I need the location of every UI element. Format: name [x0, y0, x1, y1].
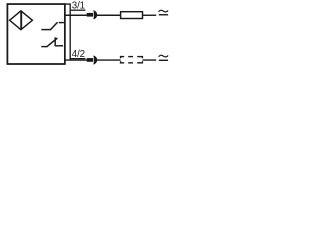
inductive proximity sensor symbol (diamond): [10, 11, 33, 30]
cable boundary line: [65, 4, 70, 60]
wire bottom (pin 4/2 to connector): [65, 59, 88, 61]
AC/DC supply symbol bottom: [159, 55, 168, 60]
connector bottom: [87, 56, 98, 65]
wire bottom connector to load: [97, 59, 121, 61]
label 3/1: [70, 0, 85, 11]
NO contact: [41, 22, 64, 30]
connector top: [87, 10, 98, 19]
sensor box: [7, 4, 64, 64]
AC/DC supply symbol top: [159, 10, 168, 14]
wire top (pin 3/1 to connector): [65, 14, 88, 16]
wire top load to supply: [143, 14, 157, 16]
load resistor top: [121, 12, 143, 19]
wire bottom load to supply: [143, 59, 157, 61]
wire top connector to load: [97, 14, 121, 16]
optional load resistor bottom (dashed): [120, 56, 142, 64]
NC contact: [41, 37, 63, 47]
label 4/2: [70, 49, 85, 60]
